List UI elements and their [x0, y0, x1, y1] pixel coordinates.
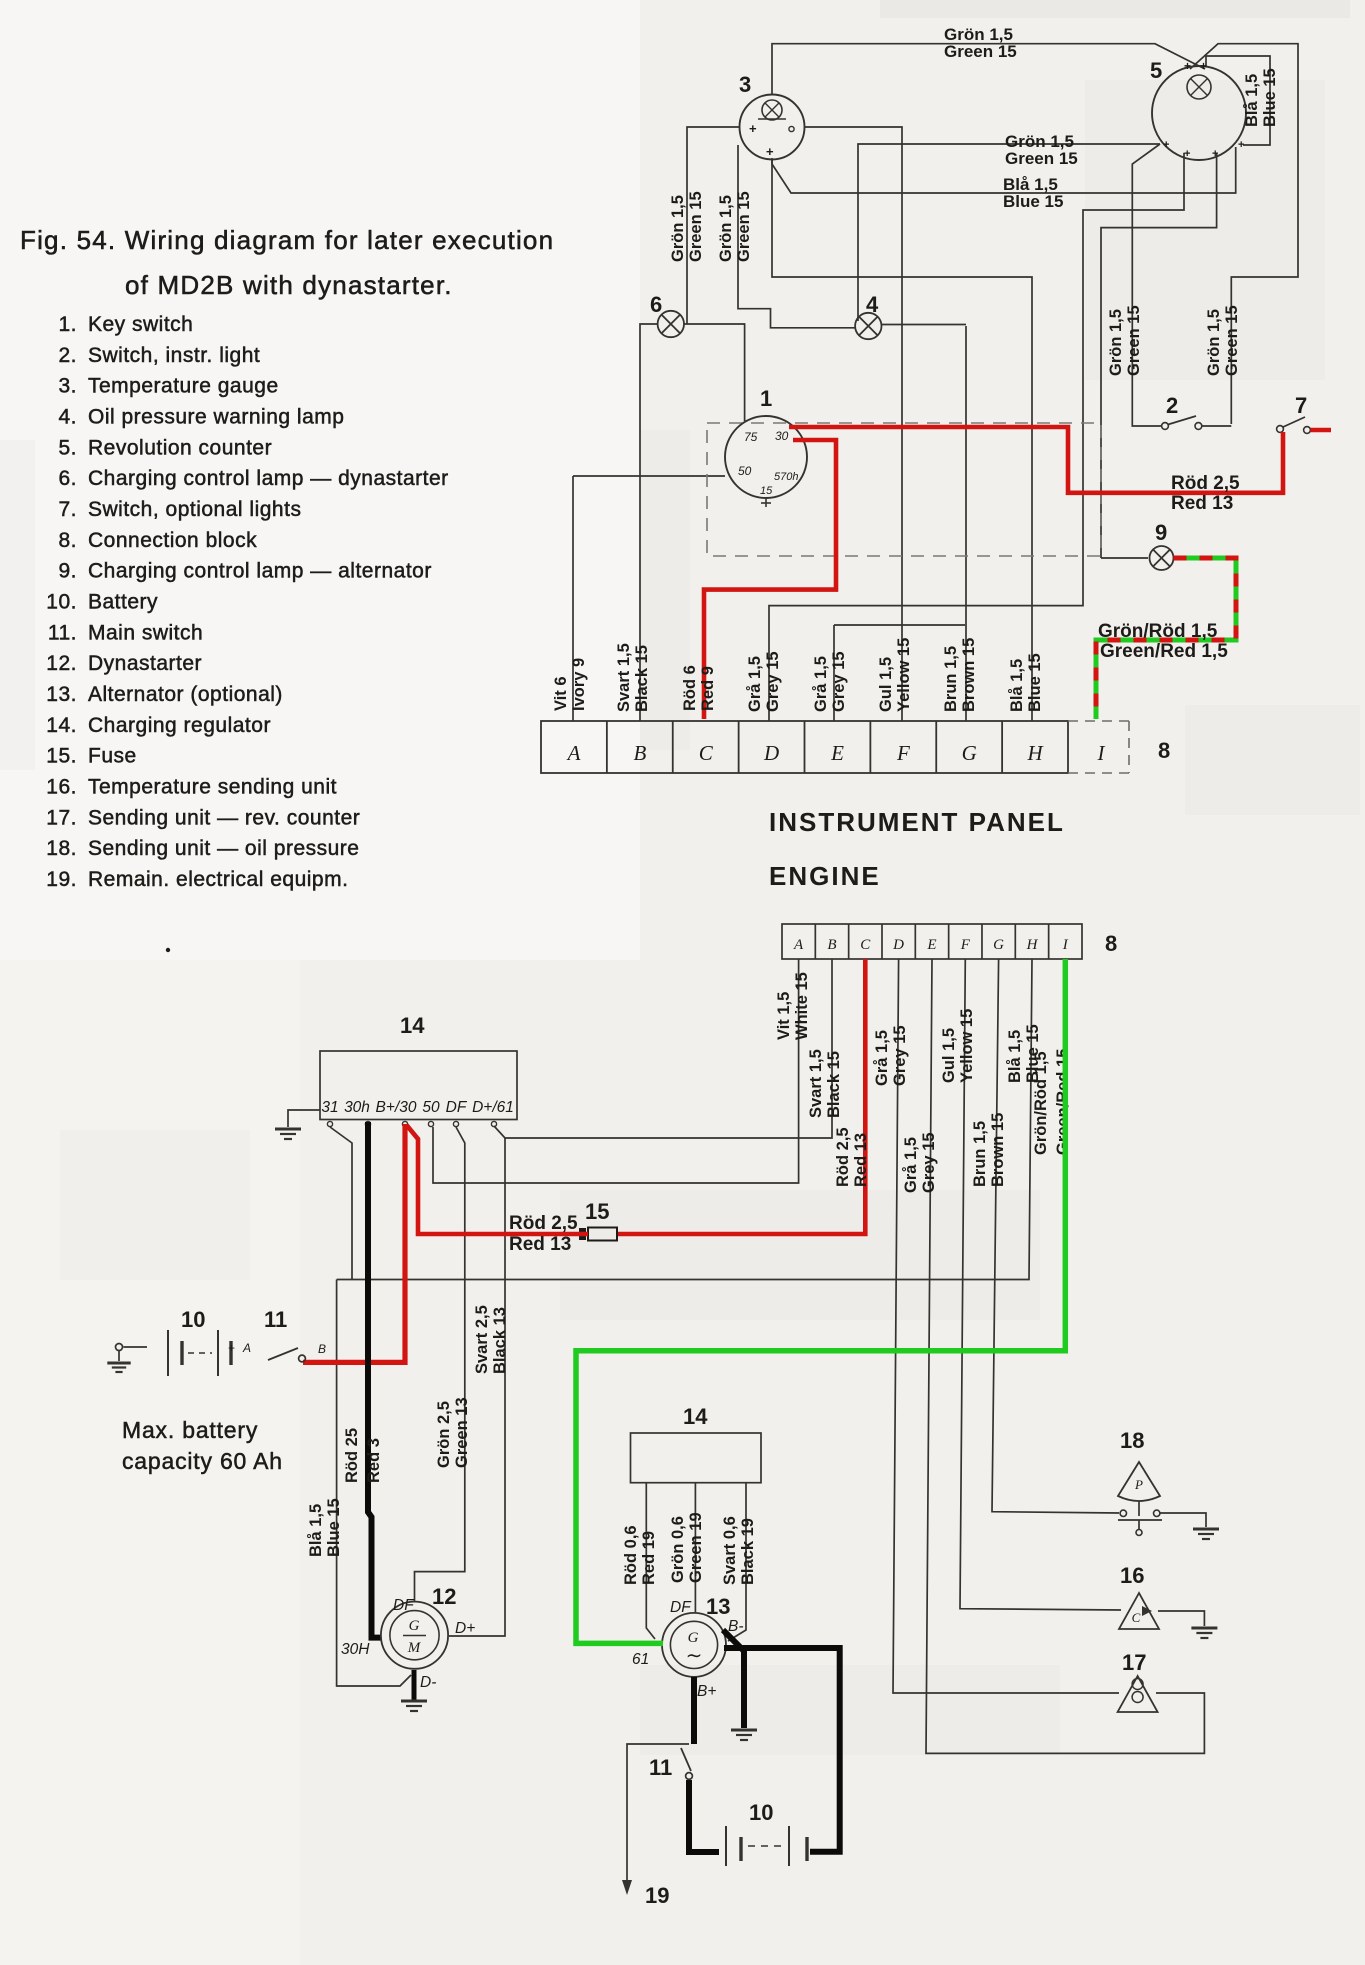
- svg-text:G: G: [688, 1630, 699, 1646]
- svg-text:16: 16: [1120, 1563, 1144, 1588]
- svg-text:5.: 5.: [58, 436, 77, 459]
- svg-text:Yellow 15: Yellow 15: [895, 638, 913, 712]
- svg-text:Grön 1,5: Grön 1,5: [717, 195, 735, 262]
- svg-text:Svart 1,5: Svart 1,5: [807, 1049, 825, 1118]
- svg-text:I: I: [1097, 741, 1106, 765]
- svg-text:Grå 1,5: Grå 1,5: [873, 1030, 891, 1086]
- svg-text:of MD2B with dynastarter.: of MD2B with dynastarter.: [125, 270, 453, 300]
- svg-text:50: 50: [738, 464, 752, 478]
- svg-text:Temperature gauge: Temperature gauge: [88, 375, 279, 398]
- svg-text:14: 14: [683, 1404, 708, 1429]
- svg-text:8.: 8.: [58, 529, 77, 552]
- svg-text:Green 13: Green 13: [453, 1397, 471, 1468]
- svg-text:Grön 1,5: Grön 1,5: [1107, 309, 1125, 376]
- svg-text:1: 1: [760, 386, 772, 411]
- svg-text:Charging regulator: Charging regulator: [88, 714, 271, 737]
- svg-text:Vit 6: Vit 6: [552, 676, 570, 711]
- svg-text:14: 14: [400, 1013, 425, 1038]
- svg-text:Svart 2,5: Svart 2,5: [473, 1305, 491, 1374]
- svg-text:C: C: [1132, 1610, 1141, 1625]
- svg-text:3.: 3.: [58, 375, 77, 398]
- svg-text:75: 75: [744, 430, 758, 444]
- svg-text:Yellow 15: Yellow 15: [958, 1009, 976, 1083]
- svg-text:4.: 4.: [58, 405, 77, 428]
- svg-text:1.: 1.: [58, 313, 77, 336]
- svg-text:A: A: [566, 741, 581, 765]
- svg-text:19.: 19.: [46, 868, 77, 891]
- svg-text:+: +: [1184, 148, 1190, 160]
- svg-text:Revolution counter: Revolution counter: [88, 436, 272, 459]
- svg-text:12.: 12.: [46, 652, 77, 675]
- svg-text:E: E: [926, 937, 936, 953]
- svg-text:Remain. electrical equipm.: Remain. electrical equipm.: [88, 868, 348, 891]
- svg-text:INSTRUMENT PANEL: INSTRUMENT PANEL: [769, 807, 1065, 837]
- svg-text:Black 13: Black 13: [491, 1307, 509, 1374]
- svg-text:DF: DF: [670, 1599, 692, 1616]
- svg-text:E: E: [830, 741, 844, 765]
- svg-text:Blue 15: Blue 15: [1003, 192, 1063, 211]
- svg-text:Black 19: Black 19: [739, 1518, 757, 1585]
- svg-text:570h: 570h: [774, 471, 798, 483]
- svg-text:Oil pressure warning lamp: Oil pressure warning lamp: [88, 405, 344, 428]
- svg-text:16.: 16.: [46, 775, 77, 798]
- svg-text:M: M: [407, 1640, 422, 1656]
- svg-text:Charging control lamp — altern: Charging control lamp — alternator: [88, 560, 432, 583]
- svg-text:Röd 0,6: Röd 0,6: [622, 1525, 640, 1585]
- svg-text:Blå 1,5: Blå 1,5: [1006, 1030, 1024, 1083]
- svg-text:Grey 15: Grey 15: [830, 651, 848, 712]
- svg-text:+: +: [749, 121, 757, 136]
- svg-text:C: C: [860, 937, 871, 953]
- svg-text:DF: DF: [446, 1099, 468, 1116]
- svg-text:17: 17: [1122, 1650, 1146, 1675]
- svg-text:Gul 1,5: Gul 1,5: [877, 657, 895, 712]
- svg-text:Brun 1,5: Brun 1,5: [942, 646, 960, 712]
- svg-text:Svart 0,6: Svart 0,6: [721, 1516, 739, 1585]
- svg-text:+: +: [228, 1341, 235, 1355]
- svg-text:Green 15: Green 15: [944, 42, 1017, 61]
- svg-text:6: 6: [650, 292, 662, 317]
- svg-text:D: D: [892, 937, 904, 953]
- svg-text:Svart 1,5: Svart 1,5: [615, 643, 633, 712]
- svg-text:Brown 15: Brown 15: [960, 638, 978, 712]
- svg-text:Key switch: Key switch: [88, 313, 193, 336]
- svg-text:Grön 0,6: Grön 0,6: [669, 1516, 687, 1583]
- svg-text:Red 3: Red 3: [365, 1438, 383, 1483]
- svg-text:19: 19: [645, 1883, 669, 1908]
- svg-text:3: 3: [739, 72, 751, 97]
- svg-text:Blå 1,5: Blå 1,5: [307, 1504, 325, 1557]
- svg-text:ENGINE: ENGINE: [769, 861, 881, 891]
- svg-text:15: 15: [585, 1199, 609, 1224]
- svg-text:Red 19: Red 19: [640, 1531, 658, 1585]
- svg-text:Blå 1,5: Blå 1,5: [1008, 659, 1026, 712]
- svg-text:Sending unit — oil pressure: Sending unit — oil pressure: [88, 837, 359, 860]
- svg-text:Röd 2,5: Röd 2,5: [834, 1127, 852, 1187]
- svg-text:10.: 10.: [46, 590, 77, 613]
- svg-text:Grön/Röd 1,5: Grön/Röd 1,5: [1098, 621, 1218, 642]
- svg-text:Switch, instr. light: Switch, instr. light: [88, 344, 260, 367]
- svg-text:F: F: [896, 741, 910, 765]
- svg-text:13.: 13.: [46, 683, 77, 706]
- svg-text:A: A: [242, 1341, 251, 1355]
- svg-text:+: +: [1238, 139, 1244, 151]
- svg-text:11.: 11.: [48, 621, 77, 644]
- svg-text:B: B: [318, 1342, 326, 1356]
- svg-text:+: +: [766, 144, 774, 159]
- svg-text:Connection block: Connection block: [88, 529, 257, 552]
- svg-text:Grå 1,5: Grå 1,5: [746, 656, 764, 712]
- svg-text:Brun 1,5: Brun 1,5: [971, 1121, 989, 1187]
- svg-text:Grey 15: Grey 15: [764, 651, 782, 712]
- svg-text:30: 30: [775, 429, 789, 443]
- svg-text:Charging control lamp — dynast: Charging control lamp — dynastarter: [88, 467, 449, 490]
- svg-text:9.: 9.: [58, 560, 77, 583]
- svg-text:capacity 60 Ah: capacity 60 Ah: [122, 1448, 283, 1474]
- svg-text:+: +: [1163, 139, 1169, 151]
- svg-text:C: C: [699, 741, 714, 765]
- svg-text:30H: 30H: [341, 1641, 370, 1658]
- svg-text:Switch, optional lights: Switch, optional lights: [88, 498, 301, 521]
- svg-text:DF: DF: [393, 1597, 415, 1614]
- svg-text:18: 18: [1120, 1428, 1144, 1453]
- svg-text:Ivory 9: Ivory 9: [570, 658, 588, 711]
- svg-text:Alternator (optional): Alternator (optional): [88, 683, 283, 706]
- svg-text:Röd 25: Röd 25: [343, 1428, 361, 1483]
- svg-text:G: G: [409, 1618, 420, 1634]
- svg-text:Grön/Röd 1,5: Grön/Röd 1,5: [1032, 1051, 1050, 1155]
- svg-text:Fuse: Fuse: [88, 745, 137, 768]
- svg-text:Fig. 54. Wiring diagram for l: Fig. 54. Wiring diagram for later execut…: [20, 225, 554, 255]
- svg-text:2: 2: [1166, 393, 1178, 418]
- svg-text:+: +: [1184, 59, 1191, 73]
- svg-text:Temperature sending unit: Temperature sending unit: [88, 775, 337, 798]
- svg-text:Green 15: Green 15: [735, 191, 753, 262]
- svg-text:8: 8: [1105, 931, 1117, 956]
- svg-text:10: 10: [181, 1307, 205, 1332]
- svg-text:Grön 1,5: Grön 1,5: [669, 195, 687, 262]
- svg-text:Vit 1,5: Vit 1,5: [775, 992, 793, 1040]
- svg-text:13: 13: [706, 1594, 730, 1619]
- svg-text:Green 15: Green 15: [687, 191, 705, 262]
- svg-text:2.: 2.: [58, 344, 77, 367]
- svg-text:Grön 2,5: Grön 2,5: [435, 1401, 453, 1468]
- svg-text:Grå 1,5: Grå 1,5: [812, 656, 830, 712]
- svg-text:Blue 15: Blue 15: [325, 1498, 343, 1557]
- svg-text:Grå 1,5: Grå 1,5: [902, 1137, 920, 1193]
- svg-text:G: G: [993, 937, 1004, 953]
- svg-text:Grey 15: Grey 15: [891, 1025, 909, 1086]
- svg-text:Gul 1,5: Gul 1,5: [940, 1028, 958, 1083]
- svg-text:P: P: [1134, 1477, 1143, 1492]
- svg-text:7.: 7.: [58, 498, 77, 521]
- svg-text:B: B: [633, 741, 646, 765]
- svg-text:Battery: Battery: [88, 590, 158, 613]
- svg-text:G: G: [962, 741, 977, 765]
- svg-text:Black 15: Black 15: [633, 645, 651, 712]
- svg-text:Dynastarter: Dynastarter: [88, 652, 202, 675]
- svg-text:Brown 15: Brown 15: [989, 1113, 1007, 1187]
- svg-text:Black 15: Black 15: [825, 1051, 843, 1118]
- svg-text:Green 15: Green 15: [1223, 305, 1241, 376]
- svg-text:D-: D-: [420, 1674, 436, 1691]
- svg-text:B+/30: B+/30: [376, 1099, 417, 1116]
- svg-text:9: 9: [1155, 520, 1167, 545]
- svg-text:Blue 15: Blue 15: [1026, 653, 1044, 712]
- svg-text:Green 15: Green 15: [1125, 305, 1143, 376]
- svg-text:17.: 17.: [46, 806, 77, 829]
- svg-text:B+: B+: [697, 1683, 716, 1700]
- svg-text:B-: B-: [728, 1618, 744, 1635]
- svg-text:Blå 1,5: Blå 1,5: [1243, 74, 1261, 127]
- svg-text:6.: 6.: [58, 467, 77, 490]
- svg-text:Green 19: Green 19: [687, 1512, 705, 1583]
- svg-text:+: +: [1200, 59, 1207, 73]
- svg-text:10: 10: [749, 1800, 773, 1825]
- svg-text:5: 5: [1150, 58, 1162, 83]
- svg-text:15: 15: [760, 485, 773, 497]
- svg-text:11: 11: [264, 1307, 287, 1332]
- svg-text:31: 31: [321, 1099, 338, 1116]
- svg-text:Red 13: Red 13: [509, 1234, 571, 1255]
- svg-text:8: 8: [1158, 738, 1170, 763]
- svg-text:Max. battery: Max. battery: [122, 1417, 258, 1443]
- svg-text:∼: ∼: [686, 1645, 703, 1667]
- svg-text:+: +: [1212, 148, 1218, 160]
- svg-text:Red 13: Red 13: [852, 1133, 870, 1187]
- svg-text:Sending unit — rev. counter: Sending unit — rev. counter: [88, 806, 360, 829]
- svg-text:B: B: [827, 937, 836, 953]
- svg-text:50: 50: [422, 1099, 440, 1116]
- svg-text:14.: 14.: [46, 714, 77, 737]
- svg-text:Green/Red 1,5: Green/Red 1,5: [1100, 641, 1228, 662]
- svg-text:H: H: [1027, 741, 1045, 765]
- svg-text:30h: 30h: [344, 1099, 370, 1116]
- svg-text:I: I: [1062, 937, 1069, 953]
- svg-text:Röd 2,5: Röd 2,5: [509, 1213, 578, 1234]
- svg-text:H: H: [1026, 937, 1039, 953]
- svg-text:Röd 2,5: Röd 2,5: [1171, 473, 1240, 494]
- svg-text:15.: 15.: [46, 745, 77, 768]
- svg-text:A: A: [793, 937, 804, 953]
- svg-text:11: 11: [649, 1755, 672, 1780]
- svg-text:White 15: White 15: [793, 972, 811, 1040]
- svg-text:61: 61: [632, 1651, 649, 1668]
- svg-text:Grön 1,5: Grön 1,5: [1205, 309, 1223, 376]
- svg-text:Red 9: Red 9: [699, 666, 717, 711]
- svg-text:12: 12: [432, 1584, 456, 1609]
- svg-text:Green 15: Green 15: [1005, 149, 1078, 168]
- svg-text:Main switch: Main switch: [88, 621, 203, 644]
- svg-text:Blue 15: Blue 15: [1261, 68, 1279, 127]
- svg-text:D+: D+: [455, 1620, 475, 1637]
- svg-text:Röd 6: Röd 6: [681, 665, 699, 711]
- svg-text:Red 13: Red 13: [1171, 493, 1233, 514]
- svg-text:F: F: [960, 937, 971, 953]
- svg-text:D+/61: D+/61: [472, 1099, 514, 1116]
- svg-text:D: D: [763, 741, 779, 765]
- svg-text:Grey 15: Grey 15: [920, 1132, 938, 1193]
- svg-text:7: 7: [1295, 393, 1307, 418]
- svg-text:4: 4: [866, 292, 879, 317]
- svg-text:18.: 18.: [46, 837, 77, 860]
